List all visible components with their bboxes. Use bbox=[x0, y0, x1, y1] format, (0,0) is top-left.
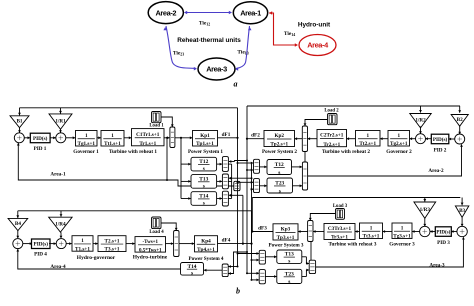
svg-text:T2.s+1: T2.s+1 bbox=[105, 238, 120, 244]
svg-text:Kp2: Kp2 bbox=[274, 133, 284, 139]
svg-text:Area-1: Area-1 bbox=[50, 172, 66, 178]
svg-text:Governor 3: Governor 3 bbox=[389, 241, 415, 247]
svg-text:s: s bbox=[203, 184, 205, 190]
svg-text:Tt3.s+1: Tt3.s+1 bbox=[363, 234, 380, 240]
svg-text:dF2: dF2 bbox=[251, 133, 260, 139]
svg-text:s: s bbox=[203, 166, 205, 172]
svg-text:Tie12: Tie12 bbox=[199, 21, 210, 27]
svg-text:PID(s): PID(s) bbox=[33, 135, 48, 142]
svg-text:PID(s): PID(s) bbox=[436, 230, 450, 235]
svg-text:s: s bbox=[203, 201, 205, 207]
svg-text:Tie14: Tie14 bbox=[284, 31, 295, 37]
svg-text:T12: T12 bbox=[199, 159, 208, 165]
svg-text:Governor 2: Governor 2 bbox=[386, 149, 412, 155]
svg-text:a: a bbox=[234, 80, 238, 89]
svg-text:1: 1 bbox=[401, 226, 404, 232]
svg-text:B1: B1 bbox=[16, 118, 22, 124]
svg-text:Power System 2: Power System 2 bbox=[262, 149, 297, 155]
svg-text:C1Tr1.s+1: C1Tr1.s+1 bbox=[136, 132, 160, 138]
svg-text:1: 1 bbox=[111, 133, 114, 139]
svg-text:Reheat-thermal units: Reheat-thermal units bbox=[177, 37, 241, 44]
svg-text:s: s bbox=[288, 279, 290, 285]
svg-text:PID 1: PID 1 bbox=[34, 146, 47, 152]
svg-text:1: 1 bbox=[370, 226, 373, 232]
svg-text:T23: T23 bbox=[275, 180, 284, 186]
svg-text:Power System 3: Power System 3 bbox=[268, 242, 303, 248]
svg-text:Tt1.s+1: Tt1.s+1 bbox=[104, 141, 121, 147]
svg-text:Tg3.s+1: Tg3.s+1 bbox=[393, 234, 411, 240]
svg-text:T13: T13 bbox=[199, 176, 208, 182]
svg-text:PID(s): PID(s) bbox=[433, 136, 448, 143]
svg-text:Tt2.s+1: Tt2.s+1 bbox=[359, 141, 376, 147]
svg-text:T14: T14 bbox=[199, 193, 208, 199]
svg-text:1/R2: 1/R2 bbox=[415, 117, 426, 123]
svg-text:Turbine with reheat 1: Turbine with reheat 1 bbox=[109, 149, 157, 155]
svg-text:Tp4.s+1: Tp4.s+1 bbox=[197, 247, 215, 253]
svg-text:1/R4: 1/R4 bbox=[55, 221, 66, 227]
svg-text:Area-2: Area-2 bbox=[428, 168, 444, 174]
svg-text:T23: T23 bbox=[285, 271, 294, 277]
svg-text:Hydro-turbine: Hydro-turbine bbox=[133, 254, 168, 260]
svg-text:Load 1: Load 1 bbox=[149, 123, 164, 128]
svg-text:dF4: dF4 bbox=[222, 238, 231, 244]
svg-text:B3: B3 bbox=[459, 208, 465, 214]
svg-text:-Tws+1: -Tws+1 bbox=[142, 240, 158, 245]
svg-text:Area-4: Area-4 bbox=[50, 264, 66, 270]
svg-text:Power System 4: Power System 4 bbox=[188, 256, 223, 262]
svg-text:Tg2.s+1: Tg2.s+1 bbox=[390, 141, 408, 147]
svg-text:0.5*Tws+1: 0.5*Tws+1 bbox=[139, 248, 162, 253]
svg-text:Area-3: Area-3 bbox=[206, 65, 227, 74]
svg-text:s: s bbox=[279, 188, 281, 194]
svg-text:T3.s+1: T3.s+1 bbox=[105, 247, 120, 253]
svg-text:Tr2.s+1: Tr2.s+1 bbox=[323, 142, 340, 148]
svg-text:Turbine with reheat 3: Turbine with reheat 3 bbox=[329, 241, 377, 247]
svg-text:Hydro-unit: Hydro-unit bbox=[298, 22, 331, 29]
svg-text:Tp3.s+1: Tp3.s+1 bbox=[277, 235, 295, 241]
svg-text:Tp2.s+1: Tp2.s+1 bbox=[270, 142, 288, 148]
svg-text:T13: T13 bbox=[285, 252, 294, 258]
svg-text:1: 1 bbox=[366, 133, 369, 139]
svg-text:b: b bbox=[236, 287, 240, 296]
svg-text:Area-3: Area-3 bbox=[429, 263, 445, 269]
svg-text:dF3: dF3 bbox=[258, 225, 267, 231]
svg-text:Area-4: Area-4 bbox=[307, 41, 329, 50]
svg-text:Tr3.s+1: Tr3.s+1 bbox=[331, 235, 348, 241]
svg-text:B4: B4 bbox=[15, 221, 21, 227]
svg-text:Area-1: Area-1 bbox=[240, 8, 261, 17]
svg-text:PID 2: PID 2 bbox=[434, 147, 447, 153]
svg-text:C2Tr2.s+1: C2Tr2.s+1 bbox=[320, 133, 344, 139]
svg-text:Load 2: Load 2 bbox=[324, 108, 339, 113]
svg-text:Turbine with reheat 2: Turbine with reheat 2 bbox=[322, 149, 370, 155]
svg-text:Tie23: Tie23 bbox=[173, 51, 184, 57]
svg-text:T12: T12 bbox=[275, 162, 284, 168]
svg-text:Kp1: Kp1 bbox=[200, 133, 210, 139]
svg-text:Load 4: Load 4 bbox=[149, 230, 164, 235]
svg-text:Kp3: Kp3 bbox=[281, 227, 291, 233]
svg-text:s: s bbox=[278, 170, 280, 176]
svg-text:Tie13: Tie13 bbox=[237, 50, 248, 56]
svg-text:PID 4: PID 4 bbox=[34, 252, 47, 258]
svg-text:Hydro-governor: Hydro-governor bbox=[77, 255, 116, 261]
svg-text:s: s bbox=[191, 270, 193, 276]
svg-text:T1.s+1: T1.s+1 bbox=[75, 246, 90, 252]
svg-text:Tg1.s+1: Tg1.s+1 bbox=[77, 141, 95, 147]
svg-text:Kp4: Kp4 bbox=[201, 239, 211, 245]
svg-text:s: s bbox=[288, 259, 290, 265]
svg-text:PID(s): PID(s) bbox=[34, 241, 49, 248]
svg-text:1/R1: 1/R1 bbox=[55, 118, 66, 124]
svg-text:1/R3: 1/R3 bbox=[420, 207, 431, 213]
svg-text:1: 1 bbox=[85, 133, 88, 139]
svg-text:Area-2: Area-2 bbox=[155, 8, 176, 17]
svg-text:B2: B2 bbox=[457, 117, 463, 123]
svg-text:Tp1.s+1: Tp1.s+1 bbox=[196, 141, 214, 147]
svg-text:1: 1 bbox=[81, 238, 84, 244]
svg-text:Power System 1: Power System 1 bbox=[188, 149, 223, 155]
svg-text:1: 1 bbox=[397, 133, 400, 139]
svg-text:dF1: dF1 bbox=[222, 132, 231, 138]
svg-text:Tr1.s+1: Tr1.s+1 bbox=[139, 141, 156, 147]
svg-text:Governor 1: Governor 1 bbox=[73, 149, 99, 155]
svg-text:PID 3: PID 3 bbox=[437, 240, 450, 246]
svg-text:C3Tr3.s+1: C3Tr3.s+1 bbox=[328, 226, 352, 232]
